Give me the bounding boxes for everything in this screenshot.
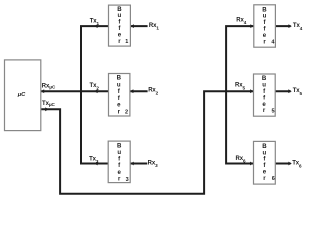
- svg-text:μC: μC: [17, 92, 26, 98]
- svg-text:5: 5: [272, 108, 275, 114]
- svg-text:1: 1: [125, 39, 128, 45]
- svg-text:6: 6: [272, 176, 275, 182]
- svg-text:2: 2: [125, 110, 128, 116]
- svg-text:3: 3: [126, 177, 129, 183]
- svg-text:RxμC: RxμC: [42, 84, 56, 90]
- svg-text:TxμC: TxμC: [42, 101, 56, 107]
